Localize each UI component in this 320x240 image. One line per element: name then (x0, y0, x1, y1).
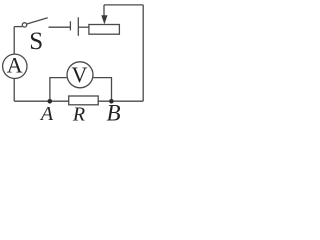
switch S blade (open) (27, 18, 48, 24)
wire: switch contact to battery negative plate (49, 26, 71, 28)
svg-text:S: S (29, 28, 43, 55)
node A junction dot (48, 99, 53, 104)
svg-text:A: A (39, 103, 54, 125)
rheostat wiper arrowhead (101, 15, 107, 24)
wire: stub from top-left corner to switch pivot (14, 26, 22, 28)
svg-text:A: A (7, 53, 23, 78)
rheostat wiper arrow stem (103, 5, 105, 17)
rheostat body (89, 25, 120, 35)
voltmeter V1 circle (67, 62, 93, 88)
battery positive plate (long) (77, 17, 79, 36)
switch S pivot circle (22, 23, 26, 27)
battery negative plate (short) (69, 21, 71, 30)
resistor R body (69, 96, 99, 105)
voltmeter branch wire: node A up, across, down to node B (50, 78, 112, 102)
node B junction dot (109, 99, 114, 104)
wire: bottom horizontal from bottom-left corner to bottom-right corner (14, 100, 143, 102)
wire: battery to rheostat left terminal (78, 26, 89, 28)
ammeter A1 circle (3, 54, 27, 78)
wire: right vertical from top-right corner down to bottom-right corner (142, 5, 144, 101)
wire: top horizontal from wiper to top-right corner (104, 4, 143, 6)
wire: left vertical from switch corner down to bottom-left corner (13, 27, 15, 102)
svg-text:R: R (72, 104, 85, 126)
svg-text:V: V (72, 62, 88, 87)
svg-text:B: B (106, 101, 120, 126)
